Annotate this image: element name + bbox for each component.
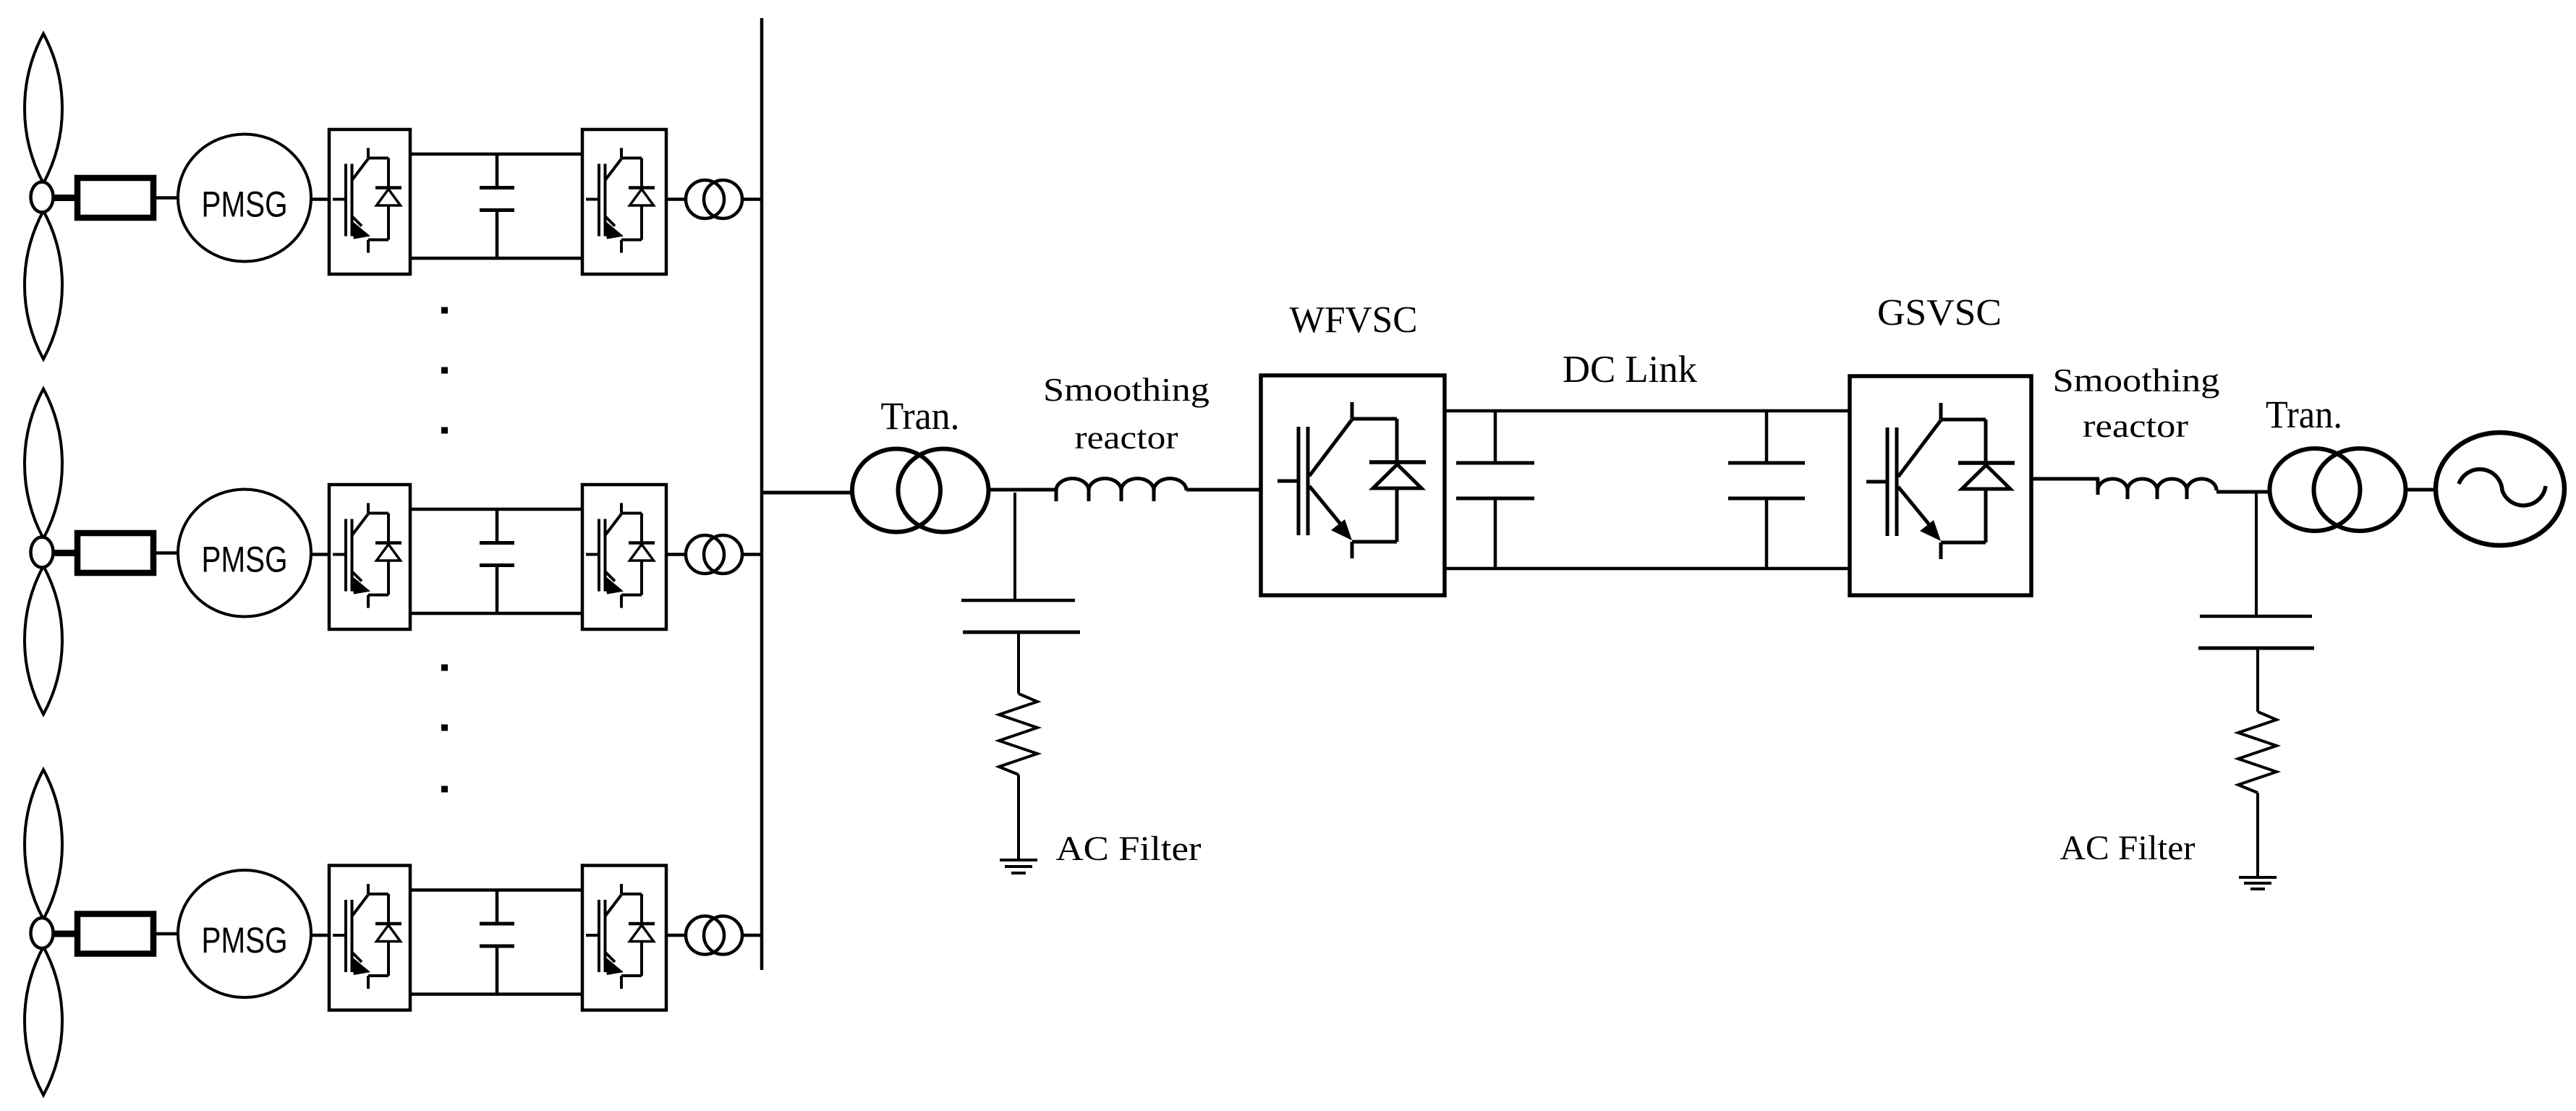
svg-text:WFVSC: WFVSC bbox=[1290, 299, 1418, 341]
svg-text:Smoothing: Smoothing bbox=[2053, 362, 2220, 399]
svg-text:reactor: reactor bbox=[1075, 419, 1178, 456]
svg-text:AC Filter: AC Filter bbox=[1056, 830, 1202, 868]
svg-text:AC Filter: AC Filter bbox=[2060, 829, 2195, 867]
svg-text:GSVSC: GSVSC bbox=[1877, 292, 2002, 333]
svg-text:Tran.: Tran. bbox=[881, 394, 960, 438]
svg-text:Smoothing: Smoothing bbox=[1043, 371, 1210, 408]
svg-text:reactor: reactor bbox=[2083, 407, 2188, 444]
svg-text:Tran.: Tran. bbox=[2266, 393, 2342, 436]
svg-text:DC Link: DC Link bbox=[1563, 349, 1697, 391]
